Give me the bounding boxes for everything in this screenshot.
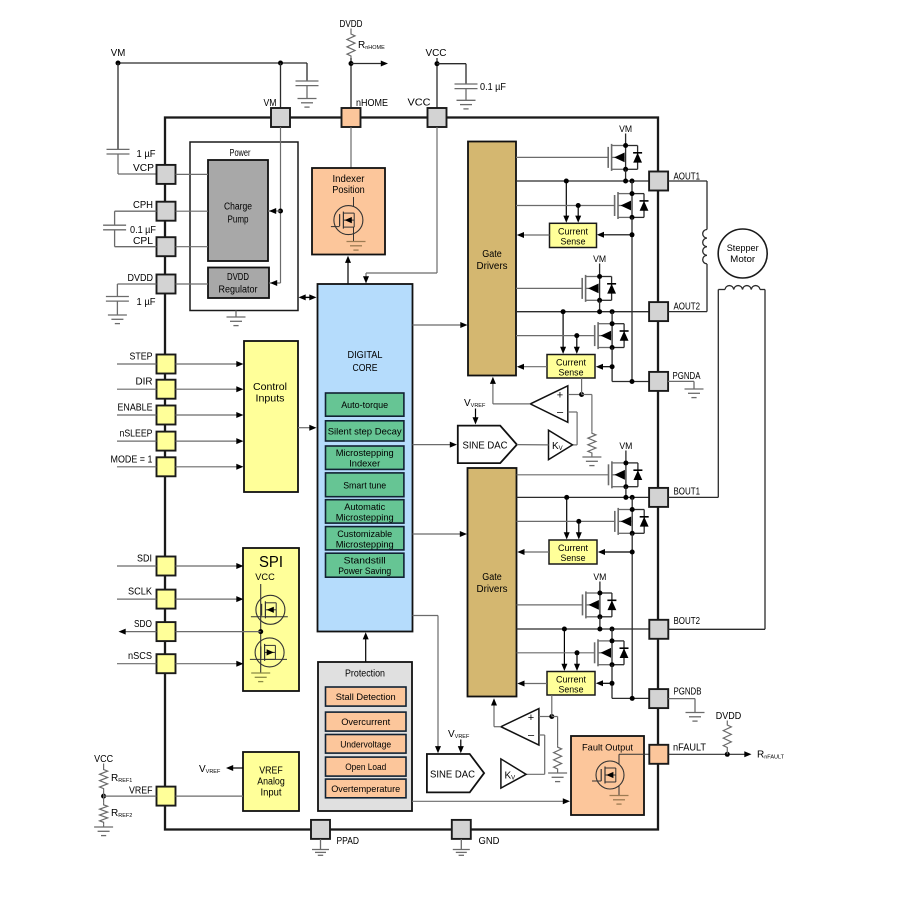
net label DVDD (top) [340,19,363,30]
ground DVDD cap [108,315,127,324]
wire CPL to charge pump [176,246,209,248]
transistor SPI pmos [251,595,288,624]
wire nSCS to SPI [176,661,244,667]
net label VM bridge B1 [619,441,632,452]
block indexer position [312,168,385,255]
svg-text:Indexer: Indexer [333,174,366,185]
svg-text:Input: Input [261,788,282,799]
wire SDO external [119,629,157,635]
node AOUT1 a [623,179,628,184]
wire vvref1 arrow [473,409,479,425]
wire VCC into core [363,127,437,284]
wire nSLEEP to control inputs [176,438,244,444]
svg-text:DIGITAL: DIGITAL [348,350,383,361]
wire AOUT1 net [516,180,649,182]
svg-text:Current: Current [558,543,588,553]
svg-text:0.1 µF: 0.1 µF [130,225,156,236]
svg-text:Silent step Decay: Silent step Decay [328,426,402,437]
block digital core [318,284,413,632]
wire VM lead B2 [599,582,601,594]
svg-text:Fault Output: Fault Output [582,743,633,754]
wire MODE = 1 to control inputs [176,464,244,470]
node AOUT1 b [630,179,635,184]
pin MODE = 1 [111,454,176,476]
wire BOUT1 net [517,496,650,498]
svg-text:Current: Current [558,227,588,237]
wire SDI external [117,565,157,567]
node VM to charge pump [278,209,283,214]
pin PGNDA [649,371,701,391]
pin GND [452,820,500,847]
net label Vvref2 [448,729,470,740]
svg-text:0.1 µF: 0.1 µF [480,82,506,93]
wire core to sine dac A [413,442,458,448]
wire SCLK external [117,598,157,600]
pin PGNDB [649,687,702,709]
svg-text:Gate: Gate [482,249,502,260]
wire cs tap B1 arrow [564,497,570,539]
pin VCP [133,163,176,184]
wire sine dac A to Kv [517,444,549,446]
inductor phase A [703,230,707,264]
core feature box Silent step Decay [326,421,404,441]
node BOUT1 b [630,495,635,500]
node B1 hs drain [623,461,628,466]
node A2 hs drain [597,274,602,279]
wire VM to bypass cap [306,63,308,81]
wire core to sine dac B [413,616,442,754]
svg-text:PPAD: PPAD [337,836,360,847]
wire A2 ls drain [611,312,613,324]
svg-text:VM: VM [264,98,277,109]
wire A1 hs gate [516,156,608,158]
wire core to indexer arrow [345,256,351,284]
ground PPAD [312,839,329,855]
wire STEP to control inputs [176,361,244,367]
wire arrow into DVDD regulator [269,280,281,286]
svg-text:Sense: Sense [561,237,586,247]
wire SPI vcc rail [260,584,262,673]
block fault output [571,736,644,815]
ground PGNDB [668,699,704,722]
svg-text:STEP: STEP [130,352,153,363]
node AOUT1 cs tap [564,179,569,184]
capacitor 1uF VCP [107,149,156,174]
wire nHOME pull-up [350,58,352,108]
wire nSCS external [117,663,157,665]
wire A1 sense arrow [597,232,632,238]
pin BOUT1 [649,487,700,507]
svg-text:SINE DAC: SINE DAC [430,770,475,781]
wire ENABLE to control inputs [176,412,244,418]
wire arrow into charge pump [268,208,281,214]
wire nSLEEP external [117,440,157,442]
svg-text:Undervoltage: Undervoltage [340,739,391,750]
wire B1 sense arrow [598,549,632,555]
wire VCC drop [436,58,438,108]
wire A2 gate tap arrow [574,336,580,354]
svg-text:VM: VM [619,441,632,452]
transistor B1 low-side [615,508,649,535]
svg-text:Sense: Sense [561,553,586,563]
svg-text:+: + [557,389,563,401]
wire A2 hs gate [516,287,582,289]
wire current sense A2 to gd [517,364,547,370]
svg-text:VM: VM [619,124,632,135]
svg-text:Drivers: Drivers [477,261,508,272]
block current sense B1 [549,540,597,564]
svg-text:Overtemperature: Overtemperature [331,784,400,795]
node nFAULT pullup [725,752,730,757]
pin SDO [134,619,176,641]
wire comp B minus input [526,735,545,774]
block current sense B2 [547,672,595,696]
node B1 ls source [630,531,635,536]
svg-text:ENABLE: ENABLE [118,403,153,414]
svg-text:Position: Position [332,185,365,196]
wire CPH loop [115,211,157,225]
node comp A plus [579,392,584,397]
node A2 hs source [597,298,602,303]
wire nHOME into indexer [350,127,352,168]
wire B2 hs gate [517,604,583,606]
wire AOUT1 to coil [668,181,707,230]
node VM junction at VM pin column [278,61,283,66]
core feature box Auto-torque [326,393,404,416]
core feature box Microstepping [326,446,404,470]
wire comp A plus input [568,394,582,396]
block SPI [243,548,299,691]
svg-text:DVDD: DVDD [227,272,249,283]
wire ENABLE external [117,414,157,416]
core feature box Customizable [326,527,404,551]
protection box Open Load [326,757,407,776]
svg-text:Power Saving: Power Saving [338,566,391,577]
node A1 ls drain [630,191,635,196]
wire coil to AOUT2 [668,264,707,312]
svg-text:VCP: VCP [133,163,154,174]
motor stepper circle [718,229,767,278]
node BOUT2 a [597,627,602,632]
block current sense A1 [550,223,597,247]
transistor A1 high-side [608,144,642,171]
pin VCC [408,98,447,128]
svg-text:Stepper: Stepper [727,243,759,254]
node VCC junction [435,61,440,66]
wire PGNDA net [612,381,649,383]
resistor R_REF1 [100,764,133,791]
node AOUT2 a [597,309,602,314]
node A1 hs source [623,167,628,172]
wire BOUT1 to coil B [668,290,725,498]
svg-text:Motor: Motor [730,254,755,265]
pin nHOME [342,98,389,127]
wire nFAULT external [668,751,751,757]
wire DVDD to regulator [176,283,209,285]
protection box Overtemperature [326,779,407,798]
net label VM bridge A2 [593,254,606,265]
wire A1 hs source to out [625,169,627,181]
wire DVDD cap [117,284,156,297]
node B2 sense tap [610,681,615,686]
svg-text:DVDD: DVDD [716,711,742,722]
wire A1 ls gate [516,205,615,207]
protection box Stall Detection [326,687,407,706]
svg-text:Customizable: Customizable [337,529,392,540]
node A2 ls drain [610,321,615,326]
svg-text:Automatic: Automatic [344,502,385,513]
net label VM bridge A1 [619,124,632,135]
svg-text:+: + [528,712,534,724]
svg-text:CPH: CPH [133,200,153,211]
wire Vvref output arrow [199,764,243,775]
pin STEP [130,352,176,374]
svg-text:MODE = 1: MODE = 1 [111,454,153,465]
svg-text:Open Load: Open Load [345,762,386,773]
node BOUT2 cs tap [562,627,567,632]
net label DVDD (nfault) [716,711,742,722]
node A1 sense tap [630,232,635,237]
ground VM bypass [298,99,317,108]
wire A1 gate tap arrow [575,206,581,223]
wire protection to fault output [412,798,570,804]
node vref divider [101,791,106,803]
wire DIR to control inputs [176,386,244,392]
dac SINE DAC A [458,426,517,464]
wire comp A minus input [568,412,577,445]
wire MODE = 1 external [117,466,157,468]
transistor B2 high-side [583,591,617,618]
wire core to gate drivers B [413,531,468,537]
dac SINE DAC B [427,754,484,792]
pin VM [264,98,291,127]
wire vvref2 arrow [458,740,464,754]
block charge pump [208,160,268,261]
wire VCC to bypass cap [437,64,466,84]
wire cap to VCP pin [118,173,157,175]
ground GND pin [453,839,470,855]
svg-text:1 µF: 1 µF [137,297,156,308]
pin ENABLE [118,403,176,425]
svg-text:SDI: SDI [137,554,152,565]
svg-text:Current: Current [556,358,586,368]
svg-text:Microstepping: Microstepping [336,539,394,550]
node A2 sense tap [610,364,615,369]
wire B2 sense arrow [596,680,612,686]
net label Vvref1 [464,398,486,409]
node A2 ls source [610,345,615,350]
protection box Undervoltage [326,735,407,754]
svg-text:nSCS: nSCS [128,651,152,662]
svg-text:1 µF: 1 µF [137,149,156,160]
op-amp comparator B [501,709,539,746]
node A1 hs drain [623,143,628,148]
wire A2 sense arrow [596,364,612,370]
svg-text:PGNDB: PGNDB [674,687,702,698]
wire VM lead B1 [625,451,627,464]
wire SDO from SPI [176,631,261,633]
wire B1 gate tap arrow [576,521,582,539]
core feature box Smart tune [326,473,404,497]
wire nHOME stub arrow [351,61,388,67]
svg-text:VCC: VCC [426,48,447,59]
wire AOUT2 net [516,311,649,313]
wire B1 source column [631,533,633,698]
svg-text:Drivers: Drivers [477,584,508,595]
wire B2 ls drain [611,629,613,641]
svg-text:CPL: CPL [133,236,153,247]
wire divider to VREF pin [104,795,157,797]
resistor comp A [588,431,596,455]
wire B2 ls gate [517,652,595,654]
ground comp B [548,771,567,782]
svg-text:CORE: CORE [353,363,378,374]
svg-text:SINE DAC: SINE DAC [463,441,508,452]
wire control inputs to core [298,425,317,431]
block gate drivers A [468,142,516,376]
ground vref divider [94,824,113,835]
wire coil B to BOUT2 [668,290,765,630]
wire BOUT2 net [517,628,650,630]
wire VM lead A2 [599,264,601,277]
svg-text:DVDD: DVDD [128,273,154,284]
wire B2 gate tap arrow [574,653,580,671]
power block outline [190,142,298,311]
transistor A2 high-side [582,275,616,302]
ground VCC bypass [457,100,476,109]
pin BOUT2 [649,616,700,639]
protection box Overcurrent [326,712,407,731]
wire B1 ls drain [631,497,633,509]
net label VCC (vref divider) [94,754,113,765]
wire power-core bidirectional arrow [299,294,317,300]
pin DVDD [128,273,176,294]
svg-text:Sense: Sense [559,685,584,695]
svg-text:Regulator: Regulator [219,285,259,296]
node VM junction left [116,61,121,66]
node B1 hs source [623,484,628,489]
node BOUT2 b [610,627,615,632]
svg-text:BOUT1: BOUT1 [674,487,701,498]
svg-text:Smart tune: Smart tune [343,480,386,491]
pin DIR [136,377,176,399]
svg-text:SDO: SDO [134,619,152,630]
transistor indexer mosfet [331,197,363,242]
transistor A1 low-side [615,192,649,219]
transistor SPI nmos [250,638,287,667]
wire CPH to charge pump [176,210,209,212]
core feature box Automatic [326,500,404,524]
wire B2 hs source to out [599,617,601,629]
node B2 hs source [597,614,602,619]
capacitor 1uF DVDD [106,297,156,315]
resistor R_nHOME [347,29,385,59]
wire comp B to resistor [552,717,558,746]
svg-text:nFAULT: nFAULT [673,743,706,754]
wire CPL loop [115,230,157,247]
svg-text:–: – [528,729,535,741]
svg-text:VREF: VREF [259,766,283,777]
node AOUT2 cs tap [561,309,566,314]
transistor B2 low-side [595,639,629,666]
wire A1 ls drain [631,181,633,194]
transistor fault mosfet [592,754,649,795]
transistor A2 low-side [595,322,629,349]
svg-text:Sense: Sense [559,368,584,378]
amp Kv A [549,430,573,460]
wire A2 hs source to out [599,300,601,311]
node PGNDB junction [630,696,635,701]
svg-text:VREF: VREF [129,786,153,797]
node comp B plus [549,714,554,719]
wire cs tap B2 arrow [561,629,567,671]
wire VM lead A1 [625,134,627,146]
node AOUT2 b [610,309,615,314]
svg-text:Control: Control [253,382,287,393]
wire SDI to SPI [176,563,244,569]
wire PGNDB net [612,697,649,699]
svg-text:Microstepping: Microstepping [336,448,394,459]
resistor R_nFAULT [723,721,784,761]
node B1 ls gate tap [576,519,581,524]
svg-text:nHOME: nHOME [356,98,388,109]
wire VCP to charge pump [176,173,209,175]
block protection [318,662,412,811]
ground comp A [582,455,601,466]
node B2 ls source [610,662,615,667]
node A1 ls gate tap [576,203,581,208]
svg-text:SCLK: SCLK [128,587,152,598]
svg-text:Analog: Analog [257,777,285,788]
transistor B1 high-side [609,461,643,488]
node A1 ls source [630,215,635,220]
op-amp comparator A [530,386,568,423]
node SPI output [258,629,263,634]
pin SCLK [128,587,176,609]
block DVDD regulator [208,268,269,299]
wire comp B output [491,698,501,726]
wire cs tap A2 arrow [560,312,566,354]
svg-text:VCC: VCC [94,754,113,765]
pin nSLEEP [120,429,176,451]
wire A2 source column [611,348,613,382]
svg-text:BOUT2: BOUT2 [674,616,701,627]
wire comp A to resistor [582,395,592,432]
pin SDI [137,554,176,576]
pin VREF [129,786,176,806]
block gate drivers B [468,468,517,697]
chip outline [165,118,658,830]
wire B1 hs source to out [625,487,627,498]
svg-text:VCC: VCC [255,572,275,583]
amp Kv B [501,759,526,788]
wire current sense B2 to gd [517,681,547,687]
svg-text:GND: GND [479,836,500,847]
svg-text:Microstepping: Microstepping [336,512,394,523]
ground power block [227,311,246,326]
wire B1 hs gate [517,474,609,476]
wire VM to VCP cap [117,63,119,149]
node B2 ls drain [610,638,615,643]
wire STEP external [117,363,157,365]
ground PGNDA [668,381,704,397]
wire cs tap A1 arrow [563,181,569,223]
block control inputs [244,341,298,492]
pin AOUT1 [649,171,700,190]
wire A1 source column [631,217,633,381]
node BOUT1 a [623,495,628,500]
wire comp A output [490,377,530,404]
